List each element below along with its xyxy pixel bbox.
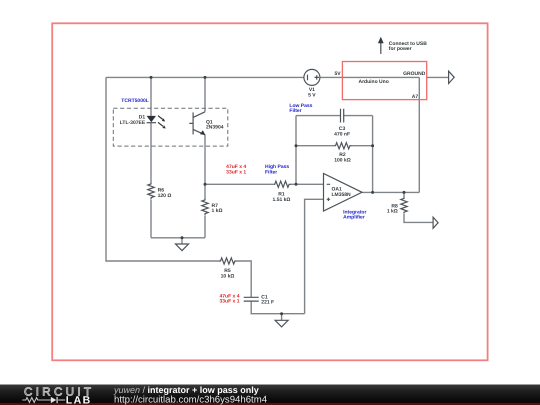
svg-text:Arduino Uno: Arduino Uno (359, 79, 389, 85)
blue label low pass filter (289, 103, 312, 114)
svg-text:Filter: Filter (265, 169, 277, 175)
wire R8 branch to port (404, 192, 433, 222)
footer bar (0, 385, 540, 405)
port terminal output (433, 217, 438, 228)
transistor Q1 (189, 112, 223, 135)
svg-text:1.51 kΩ: 1.51 kΩ (273, 197, 291, 203)
ground bottom (275, 320, 288, 327)
svg-text:Amplifier: Amplifier (343, 215, 365, 221)
wire op-amp output row (362, 191, 419, 193)
wire ground stub bottom (281, 314, 283, 321)
op-amp OA1 (324, 174, 367, 221)
svg-text:470 nF: 470 nF (334, 131, 350, 137)
resistor R2 (334, 143, 351, 164)
svg-text:1 kΩ: 1 kΩ (212, 208, 223, 214)
port terminal top right (449, 71, 455, 83)
svg-text:10 kΩ: 10 kΩ (221, 273, 235, 279)
wire feedback loop top (C3 row) (296, 115, 373, 117)
resistor R8 (387, 197, 407, 215)
voltage source V1 (304, 69, 320, 98)
circuitlab logo (22, 386, 94, 405)
wire left rail down to R5 (106, 77, 219, 261)
wire ground row under R6 R7 (151, 238, 205, 244)
wire feedback loop right (372, 116, 374, 193)
wire D1 branch (150, 77, 152, 237)
svg-text:5V: 5V (334, 71, 341, 77)
svg-text:120 Ω: 120 Ω (158, 193, 172, 199)
node dots (150, 76, 153, 79)
svg-text:TCRT5000L: TCRT5000L (121, 98, 149, 104)
wire A7 riser (418, 77, 420, 192)
blue label high pass filter (265, 164, 289, 175)
svg-text:221 F: 221 F (261, 300, 274, 306)
svg-text:LM358N: LM358N (332, 192, 352, 198)
svg-text:33uF x 1: 33uF x 1 (226, 169, 246, 175)
wire Q1 branch (204, 77, 206, 237)
annotation arrow: connect to USB (378, 37, 427, 54)
svg-text:LTL-307EE: LTL-307EE (120, 120, 146, 126)
LED D1 (120, 114, 166, 128)
wire feedback loop left (295, 116, 297, 185)
svg-text:for power: for power (389, 46, 412, 52)
wire R5 to C1 (236, 261, 251, 297)
resistor R7 (202, 199, 223, 216)
wire main row to op-amp (205, 183, 324, 185)
ground under R6/R7 (176, 244, 189, 251)
resistor R1 (273, 181, 291, 203)
svg-text:1 kΩ: 1 kΩ (387, 209, 398, 215)
svg-text:LAB: LAB (66, 394, 92, 405)
wire top rail (106, 76, 419, 78)
svg-text:33uF x 1: 33uF x 1 (219, 299, 239, 305)
wire plus-input riser (305, 199, 324, 313)
optocoupler dashed box TCRT5000L (113, 98, 228, 146)
capacitor C1 (219, 293, 274, 305)
arduino uno module (334, 62, 426, 100)
svg-text:Filter: Filter (289, 108, 301, 114)
svg-text:http://circuitlab.com/c3h6ys94: http://circuitlab.com/c3h6ys94h6tm4 (114, 394, 268, 405)
resistor R6 (148, 183, 172, 200)
wire feedback loop middle (R2 row) (296, 145, 373, 147)
svg-text:2N3904: 2N3904 (206, 125, 224, 131)
wire GROUND pin to port (427, 76, 449, 78)
footer credit text (113, 385, 268, 405)
red annotation near high pass (226, 164, 246, 175)
svg-text:5 V: 5 V (308, 92, 316, 98)
wire C1 bottom row (251, 301, 304, 314)
svg-text:100 kΩ: 100 kΩ (334, 158, 351, 164)
capacitor C3 (334, 109, 350, 138)
svg-text:GROUND: GROUND (403, 71, 426, 77)
resistor R5 (219, 258, 236, 280)
svg-text:A7: A7 (412, 94, 419, 100)
